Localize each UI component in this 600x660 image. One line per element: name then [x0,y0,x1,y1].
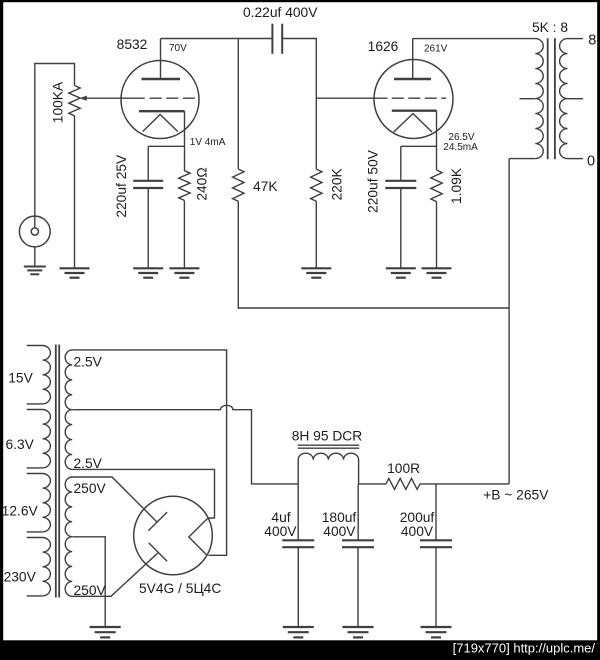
label 1626 [368,39,399,54]
wire 250V centre tap [72,537,105,627]
wire R3 bottom to B+ [238,201,509,308]
choke L1 core [298,445,360,448]
svg-text:1V 4mA: 1V 4mA [190,137,226,148]
choke L1 winding [298,453,358,484]
T2 primary section 230V [27,538,51,596]
wire cathode to C3 [401,145,437,147]
label 1V 4mA [190,137,226,148]
capacitor C4 4uf stem [297,484,299,540]
wire V1 cathode down [184,111,186,171]
svg-text:400V: 400V [323,524,356,539]
svg-text:0.22uf 400V: 0.22uf 400V [243,5,318,20]
svg-text:12.6V: 12.6V [2,504,39,519]
wire jack top to pot [35,64,75,228]
wire R5 bottom [436,202,438,269]
border right [597,0,600,660]
tube V1 8532 envelope [121,61,199,139]
rectifier V3 plate 2 [149,543,167,561]
label 24.5mA [443,142,478,153]
T2 secondary 250V winding [65,477,72,596]
label 180uf 400V [323,524,356,539]
wire filament tap B+ with hop [72,405,298,484]
ground jack [24,267,46,275]
label 12.6V [2,504,39,519]
border left [0,0,3,660]
svg-text:220K: 220K [330,167,345,200]
label +B ~ 265V [483,488,549,503]
svg-text:8: 8 [588,32,596,48]
ground C5 [343,627,374,637]
V2 plate lead [412,39,414,80]
ground C6 [421,627,452,637]
svg-text:4uf: 4uf [271,510,290,525]
svg-text:100KA: 100KA [51,81,66,123]
V2 grid dashed [392,97,446,99]
border top [0,0,600,2]
label 5K : 8 [532,20,568,35]
label 2.5V bottom [74,456,103,471]
capacitor C1 220uf 25V [133,181,163,188]
wire C3 bottom [400,188,402,268]
svg-text:1.09K: 1.09K [449,167,464,204]
ground R4 [301,268,331,277]
wire 2.5V bottom to filament [72,469,214,518]
wire B+ rail [508,159,510,484]
label 15V [8,371,33,386]
wire V2 cathode down [436,111,438,170]
T1 primary tap stub [520,98,536,100]
label 6.3V [6,437,35,452]
svg-text:5K : 8: 5K : 8 [532,20,568,35]
label 261V [424,44,448,55]
label 8 [588,32,596,48]
T1 core [548,38,555,159]
V1 cathode [139,110,185,112]
capacitor C5 180uf stem [357,484,359,540]
label 250V top [74,481,107,496]
capacitor C6 200uf stem [435,484,437,540]
V1 heater [143,115,178,132]
label 240ohm [194,167,209,200]
label 220uf 50V [365,149,380,213]
wire cathode to C1 [148,145,184,147]
wire C2 to grid node [282,39,316,170]
ground C1 [133,268,163,277]
T2 secondary 2.5V winding [65,350,72,470]
wire C1 stem top [147,146,149,181]
label 100KA [51,81,66,123]
T2 primary section 15V [27,346,51,404]
footer url text [453,641,596,656]
label 200uf [400,510,435,525]
svg-text:100R: 100R [387,461,420,476]
svg-text:230V: 230V [4,570,37,585]
label 47K [253,179,278,194]
ground pot [60,268,90,277]
rectifier V3 envelope [134,496,213,575]
T1 secondary bottom lead [568,158,584,160]
label 8H 95 DCR [292,429,363,444]
V2 plate [394,78,431,80]
svg-text:200uf: 200uf [400,510,435,525]
capacitor C2 0.22uf 400V [272,24,282,54]
label 5V4G / 5Ts4C [139,581,221,596]
ground R2 [169,268,199,277]
T1 secondary winding [560,39,568,159]
wire 2.5V top to filament [72,350,226,555]
capacitor C3 220uf 50V [385,181,416,188]
T2 core [56,345,59,598]
label 220uf 25V [114,154,129,218]
label 230V [4,570,37,585]
svg-text:220uf 50V: 220uf 50V [365,149,380,213]
label 180uf [322,510,357,525]
T2 primary section 6.3V [27,410,51,468]
ground T2 centre tap [90,627,121,637]
wire R4 bottom [315,201,317,268]
V1 plate [142,78,181,80]
tube V2 1626 envelope [374,60,453,139]
V1 plate lead [160,39,162,80]
input jack J1 [19,216,50,247]
svg-text:+B ~ 265V: +B ~ 265V [483,488,549,503]
label 4uf 400V [264,524,297,539]
svg-text:24.5mA: 24.5mA [443,142,478,153]
svg-text:5V4G / 5Ц4C: 5V4G / 5Ц4C [139,581,221,596]
label 220K [330,167,345,200]
wire R6 out to B+ [420,483,509,485]
label 2.5V top [74,354,103,369]
rectifier V3 plate 1 [148,512,167,531]
T1 secondary tap stub [568,98,584,100]
svg-text:8532: 8532 [117,37,148,52]
svg-text:400V: 400V [401,524,434,539]
svg-text:1626: 1626 [368,39,399,54]
svg-text:220uf 25V: 220uf 25V [114,154,129,218]
svg-text:0: 0 [587,154,595,170]
label 250V bottom [74,583,107,598]
wire R3 top [237,39,239,170]
wire C4 bottom [297,547,299,627]
resistor R5 1.09K [431,170,442,202]
wire R2 bottom [183,200,185,268]
wire C6 bottom [435,547,437,627]
capacitor C6 200uf 400V [420,540,452,547]
label 8532 [117,37,148,52]
label 26.5V [448,132,474,143]
svg-text:2.5V: 2.5V [74,354,103,369]
label 200uf 400V [401,524,434,539]
V2 heater [394,114,432,132]
wire jack bottom [34,247,36,266]
wire C1 bottom [147,188,149,268]
label 0.22uf 400V [243,5,318,20]
label 100R [387,461,420,476]
svg-text:250V: 250V [74,481,107,496]
svg-text:180uf: 180uf [322,510,357,525]
pot wiper arrow [79,96,144,101]
V1 grid dashed [150,97,195,99]
wire pot bottom [74,116,76,268]
capacitor C4 4uf 400V [282,540,314,547]
label 70V [169,43,187,54]
resistor R3 47K [233,169,244,201]
resistor R2 240ohm [179,171,190,201]
svg-text:70V: 70V [169,43,187,54]
resistor R6 100R [386,478,420,489]
svg-text:6.3V: 6.3V [6,437,35,452]
T1 secondary top lead [568,38,584,40]
label 0 [587,154,595,170]
svg-text:240Ω: 240Ω [194,167,209,200]
ground R5 [422,268,452,277]
ground C3 [386,268,416,277]
svg-text:15V: 15V [8,371,33,386]
wire C3 stem [400,146,402,181]
svg-text:[719x770] http://uplc.me/: [719x770] http://uplc.me/ [453,641,596,656]
svg-text:8H 95 DCR: 8H 95 DCR [292,429,363,444]
wire 250V top to plate [72,477,157,522]
label 4uf [271,510,290,525]
svg-text:47K: 47K [253,179,278,194]
label 1.09K [449,167,464,204]
T1 primary winding [413,39,544,159]
wire C5 bottom [357,547,359,627]
V3 filament [189,518,208,555]
ground C4 [283,627,314,637]
wire grid V2 [316,97,387,99]
svg-text:400V: 400V [264,524,297,539]
svg-text:261V: 261V [424,44,448,55]
wire 250V bottom to plate [72,553,158,597]
wire V1 plate node [161,38,273,40]
potentiometer 100KA body [69,86,80,116]
wire choke out [359,483,386,485]
resistor R4 220K [311,169,322,201]
T1 primary bottom lead [509,158,535,160]
V2 cathode [392,109,437,111]
capacitor C5 180uf 400V [342,540,374,547]
T2 primary section 12.6V [27,474,51,532]
footer bar [0,640,600,660]
